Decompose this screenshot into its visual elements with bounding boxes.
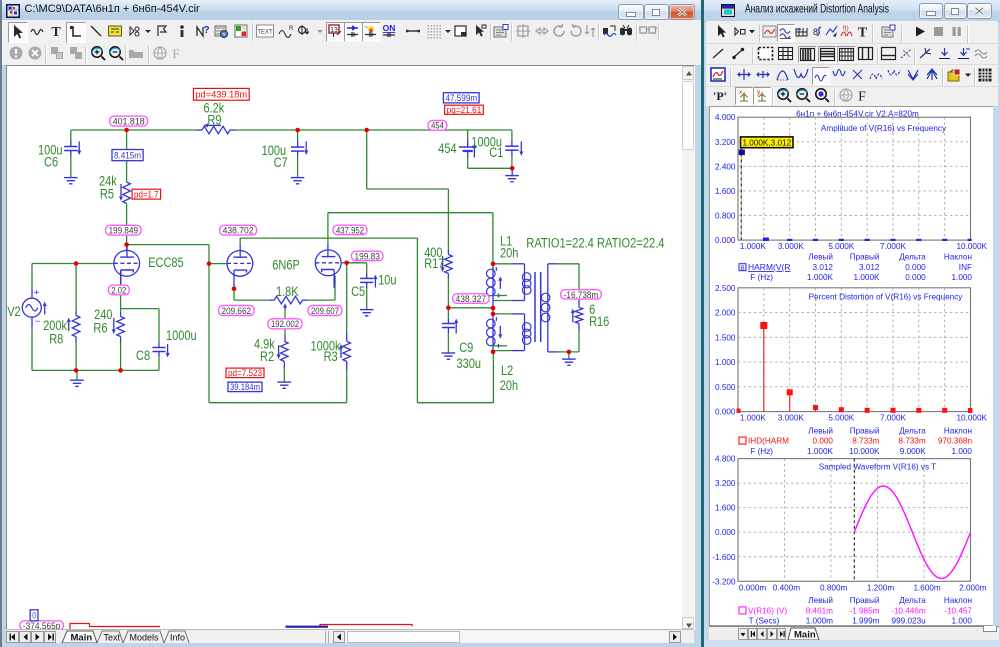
svg-text:RATIO1=22.4 RATIO2=22.4: RATIO1=22.4 RATIO2=22.4 [526, 235, 665, 250]
svg-text:970.368n: 970.368n [938, 436, 973, 445]
svg-text:1.200m: 1.200m [867, 583, 894, 592]
svg-text:Info: Info [170, 633, 185, 643]
svg-text:0.000: 0.000 [813, 436, 834, 445]
svg-text:pd=1.7: pd=1.7 [134, 190, 159, 201]
svg-text:pd=7.523: pd=7.523 [228, 368, 262, 379]
svg-text:Text: Text [104, 633, 121, 643]
svg-text:C6: C6 [44, 155, 58, 170]
svg-text:-16.738m: -16.738m [564, 290, 599, 301]
svg-text:T: T [858, 25, 867, 40]
svg-text:0.000: 0.000 [906, 273, 927, 282]
svg-text:R3: R3 [324, 349, 338, 364]
svg-text:8.461m: 8.461m [806, 606, 833, 615]
svg-text:F (Hz): F (Hz) [751, 273, 774, 282]
svg-text:1.8K: 1.8K [276, 284, 299, 299]
svg-text:Левый: Левый [809, 252, 834, 261]
svg-text:39.184m: 39.184m [230, 382, 260, 393]
svg-text:1.600m: 1.600m [914, 583, 941, 592]
svg-text:Наклон: Наклон [944, 596, 972, 605]
svg-text:Правый: Правый [850, 252, 880, 261]
svg-text:0.000: 0.000 [715, 528, 736, 537]
svg-text:4.000: 4.000 [715, 113, 736, 122]
svg-text:Левый: Левый [809, 426, 834, 435]
svg-text:1.000: 1.000 [952, 446, 973, 455]
svg-text:F: F [858, 90, 866, 104]
svg-text:C1: C1 [489, 145, 503, 160]
svg-text:Наклон: Наклон [944, 252, 972, 261]
svg-text:Models: Models [130, 633, 160, 643]
svg-text:R9: R9 [207, 113, 221, 128]
svg-text:L2: L2 [501, 363, 513, 378]
svg-text:R16: R16 [589, 314, 609, 329]
svg-text:2.500: 2.500 [715, 283, 736, 292]
svg-text:1.000K: 1.000K [740, 413, 766, 422]
svg-text:454: 454 [438, 141, 457, 156]
svg-text:6N6P: 6N6P [272, 258, 300, 273]
svg-text:1.000K: 1.000K [740, 242, 766, 251]
svg-text:Наклон: Наклон [944, 426, 972, 435]
svg-text:T (Secs): T (Secs) [749, 616, 780, 625]
svg-text:20h: 20h [500, 245, 518, 260]
svg-text:R6: R6 [93, 320, 107, 335]
svg-text:2.000m: 2.000m [960, 583, 987, 592]
svg-text:0.800m: 0.800m [821, 583, 848, 592]
svg-text:3.012: 3.012 [813, 263, 834, 272]
svg-text:-10.457: -10.457 [945, 606, 973, 615]
svg-text:1.000K,3.012: 1.000K,3.012 [743, 138, 792, 147]
svg-text:0.000: 0.000 [715, 407, 736, 416]
svg-text:Правый: Правый [850, 596, 880, 605]
svg-text:V2: V2 [7, 304, 21, 319]
svg-text:454: 454 [431, 121, 444, 132]
svg-text:Левый: Левый [809, 596, 834, 605]
svg-text:Правый: Правый [850, 426, 880, 435]
svg-text:10.000K: 10.000K [849, 446, 880, 455]
svg-text:R17: R17 [424, 256, 444, 271]
svg-text:R2: R2 [260, 349, 274, 364]
svg-text:-374.565p: -374.565p [23, 621, 61, 629]
svg-text:209.607: 209.607 [311, 306, 339, 317]
svg-text:209.662: 209.662 [222, 306, 252, 317]
svg-text:10.000K: 10.000K [957, 413, 988, 422]
svg-text:199.849: 199.849 [109, 226, 138, 237]
svg-text:1.000: 1.000 [715, 358, 736, 367]
svg-text:1.600: 1.600 [715, 503, 736, 512]
svg-text:192.002: 192.002 [271, 319, 299, 330]
svg-text:-1.600: -1.600 [713, 552, 737, 561]
svg-text:Percent Distortion of V(R16) v: Percent Distortion of V(R16) vs Frequenc… [809, 292, 964, 301]
svg-text:HARM(V(R: HARM(V(R [748, 262, 791, 272]
svg-text:Sampled Waveform V(R16) vs T: Sampled Waveform V(R16) vs T [819, 462, 936, 471]
svg-text:+: + [34, 288, 40, 298]
svg-text:199.83: 199.83 [355, 251, 380, 262]
svg-text:0.000m: 0.000m [739, 583, 766, 592]
svg-text:R8: R8 [49, 332, 63, 347]
svg-text:0: 0 [32, 611, 36, 622]
svg-text:1.600: 1.600 [715, 186, 736, 195]
svg-text:C7: C7 [274, 155, 288, 170]
svg-text:4.800: 4.800 [715, 454, 736, 463]
svg-text:330u: 330u [457, 356, 482, 371]
svg-text:0.800: 0.800 [715, 211, 736, 220]
svg-text:-1.985m: -1.985m [850, 606, 880, 615]
svg-text:f(): f() [843, 26, 849, 32]
svg-text:438.702: 438.702 [223, 226, 254, 237]
svg-text:3.000K: 3.000K [778, 242, 804, 251]
svg-text:401.818: 401.818 [113, 117, 145, 128]
svg-text:10.000K: 10.000K [957, 242, 988, 251]
svg-text:438.327: 438.327 [456, 294, 487, 305]
svg-text:F (Hz): F (Hz) [751, 446, 774, 455]
svg-text:-10.446m: -10.446m [892, 606, 927, 615]
svg-text:1.000K: 1.000K [854, 273, 880, 282]
svg-text:C8: C8 [136, 348, 150, 363]
svg-text:V(R16) (V): V(R16) (V) [748, 606, 787, 615]
svg-text:20h: 20h [500, 378, 518, 393]
svg-text:1.000: 1.000 [952, 616, 973, 625]
svg-text:1.000: 1.000 [952, 273, 973, 282]
svg-text:1000u: 1000u [166, 328, 197, 343]
svg-text:999.023u: 999.023u [892, 616, 927, 625]
svg-text:5.000K: 5.000K [829, 242, 855, 251]
svg-text:3.012: 3.012 [859, 263, 880, 272]
svg-text:0.000: 0.000 [715, 236, 736, 245]
svg-text:Amplitude of V(R16) vs Frequen: Amplitude of V(R16) vs Frequency [821, 124, 947, 133]
svg-text:3.200: 3.200 [715, 479, 736, 488]
svg-text:0.500: 0.500 [715, 382, 736, 391]
svg-text:1.000K: 1.000K [808, 446, 834, 455]
svg-text:B: B [741, 264, 745, 271]
svg-text:Дельта: Дельта [900, 426, 927, 435]
svg-text:Main: Main [71, 633, 93, 644]
svg-text:7.000K: 7.000K [881, 242, 907, 251]
svg-text:-3.200: -3.200 [713, 577, 737, 586]
svg-text:7.000K: 7.000K [881, 413, 907, 422]
svg-text:2.400: 2.400 [715, 162, 736, 171]
svg-text:8.733m: 8.733m [853, 436, 880, 445]
svg-text:2.000: 2.000 [715, 308, 736, 317]
svg-text:Дельта: Дельта [900, 252, 927, 261]
svg-text:ECC85: ECC85 [148, 255, 184, 270]
svg-text:1.000K: 1.000K [808, 273, 834, 282]
svg-text:INF: INF [959, 263, 972, 272]
svg-text:1.500: 1.500 [715, 333, 736, 342]
svg-text:5.000K: 5.000K [829, 413, 855, 422]
svg-text:2.02: 2.02 [111, 285, 126, 296]
svg-text:3.000K: 3.000K [778, 413, 804, 422]
svg-text:8.733m: 8.733m [899, 436, 926, 445]
svg-text:3.200: 3.200 [715, 137, 736, 146]
svg-text:10u: 10u [378, 273, 396, 288]
svg-text:8.415m: 8.415m [114, 151, 141, 162]
svg-text:C5: C5 [351, 284, 365, 299]
svg-text:0.000: 0.000 [906, 263, 927, 272]
svg-text:IHD(HARM: IHD(HARM [748, 436, 789, 445]
svg-text:R5: R5 [100, 187, 114, 202]
svg-text:1.000m: 1.000m [806, 616, 833, 625]
svg-text:'P': 'P' [713, 89, 727, 103]
svg-text:437.952: 437.952 [336, 225, 364, 236]
svg-text:C9: C9 [459, 340, 473, 355]
svg-text:9.000K: 9.000K [900, 446, 926, 455]
svg-text:0.400m: 0.400m [773, 583, 800, 592]
svg-text:−: − [35, 316, 41, 326]
svg-text:Дельта: Дельта [900, 596, 927, 605]
svg-text:1.999m: 1.999m [853, 616, 880, 625]
